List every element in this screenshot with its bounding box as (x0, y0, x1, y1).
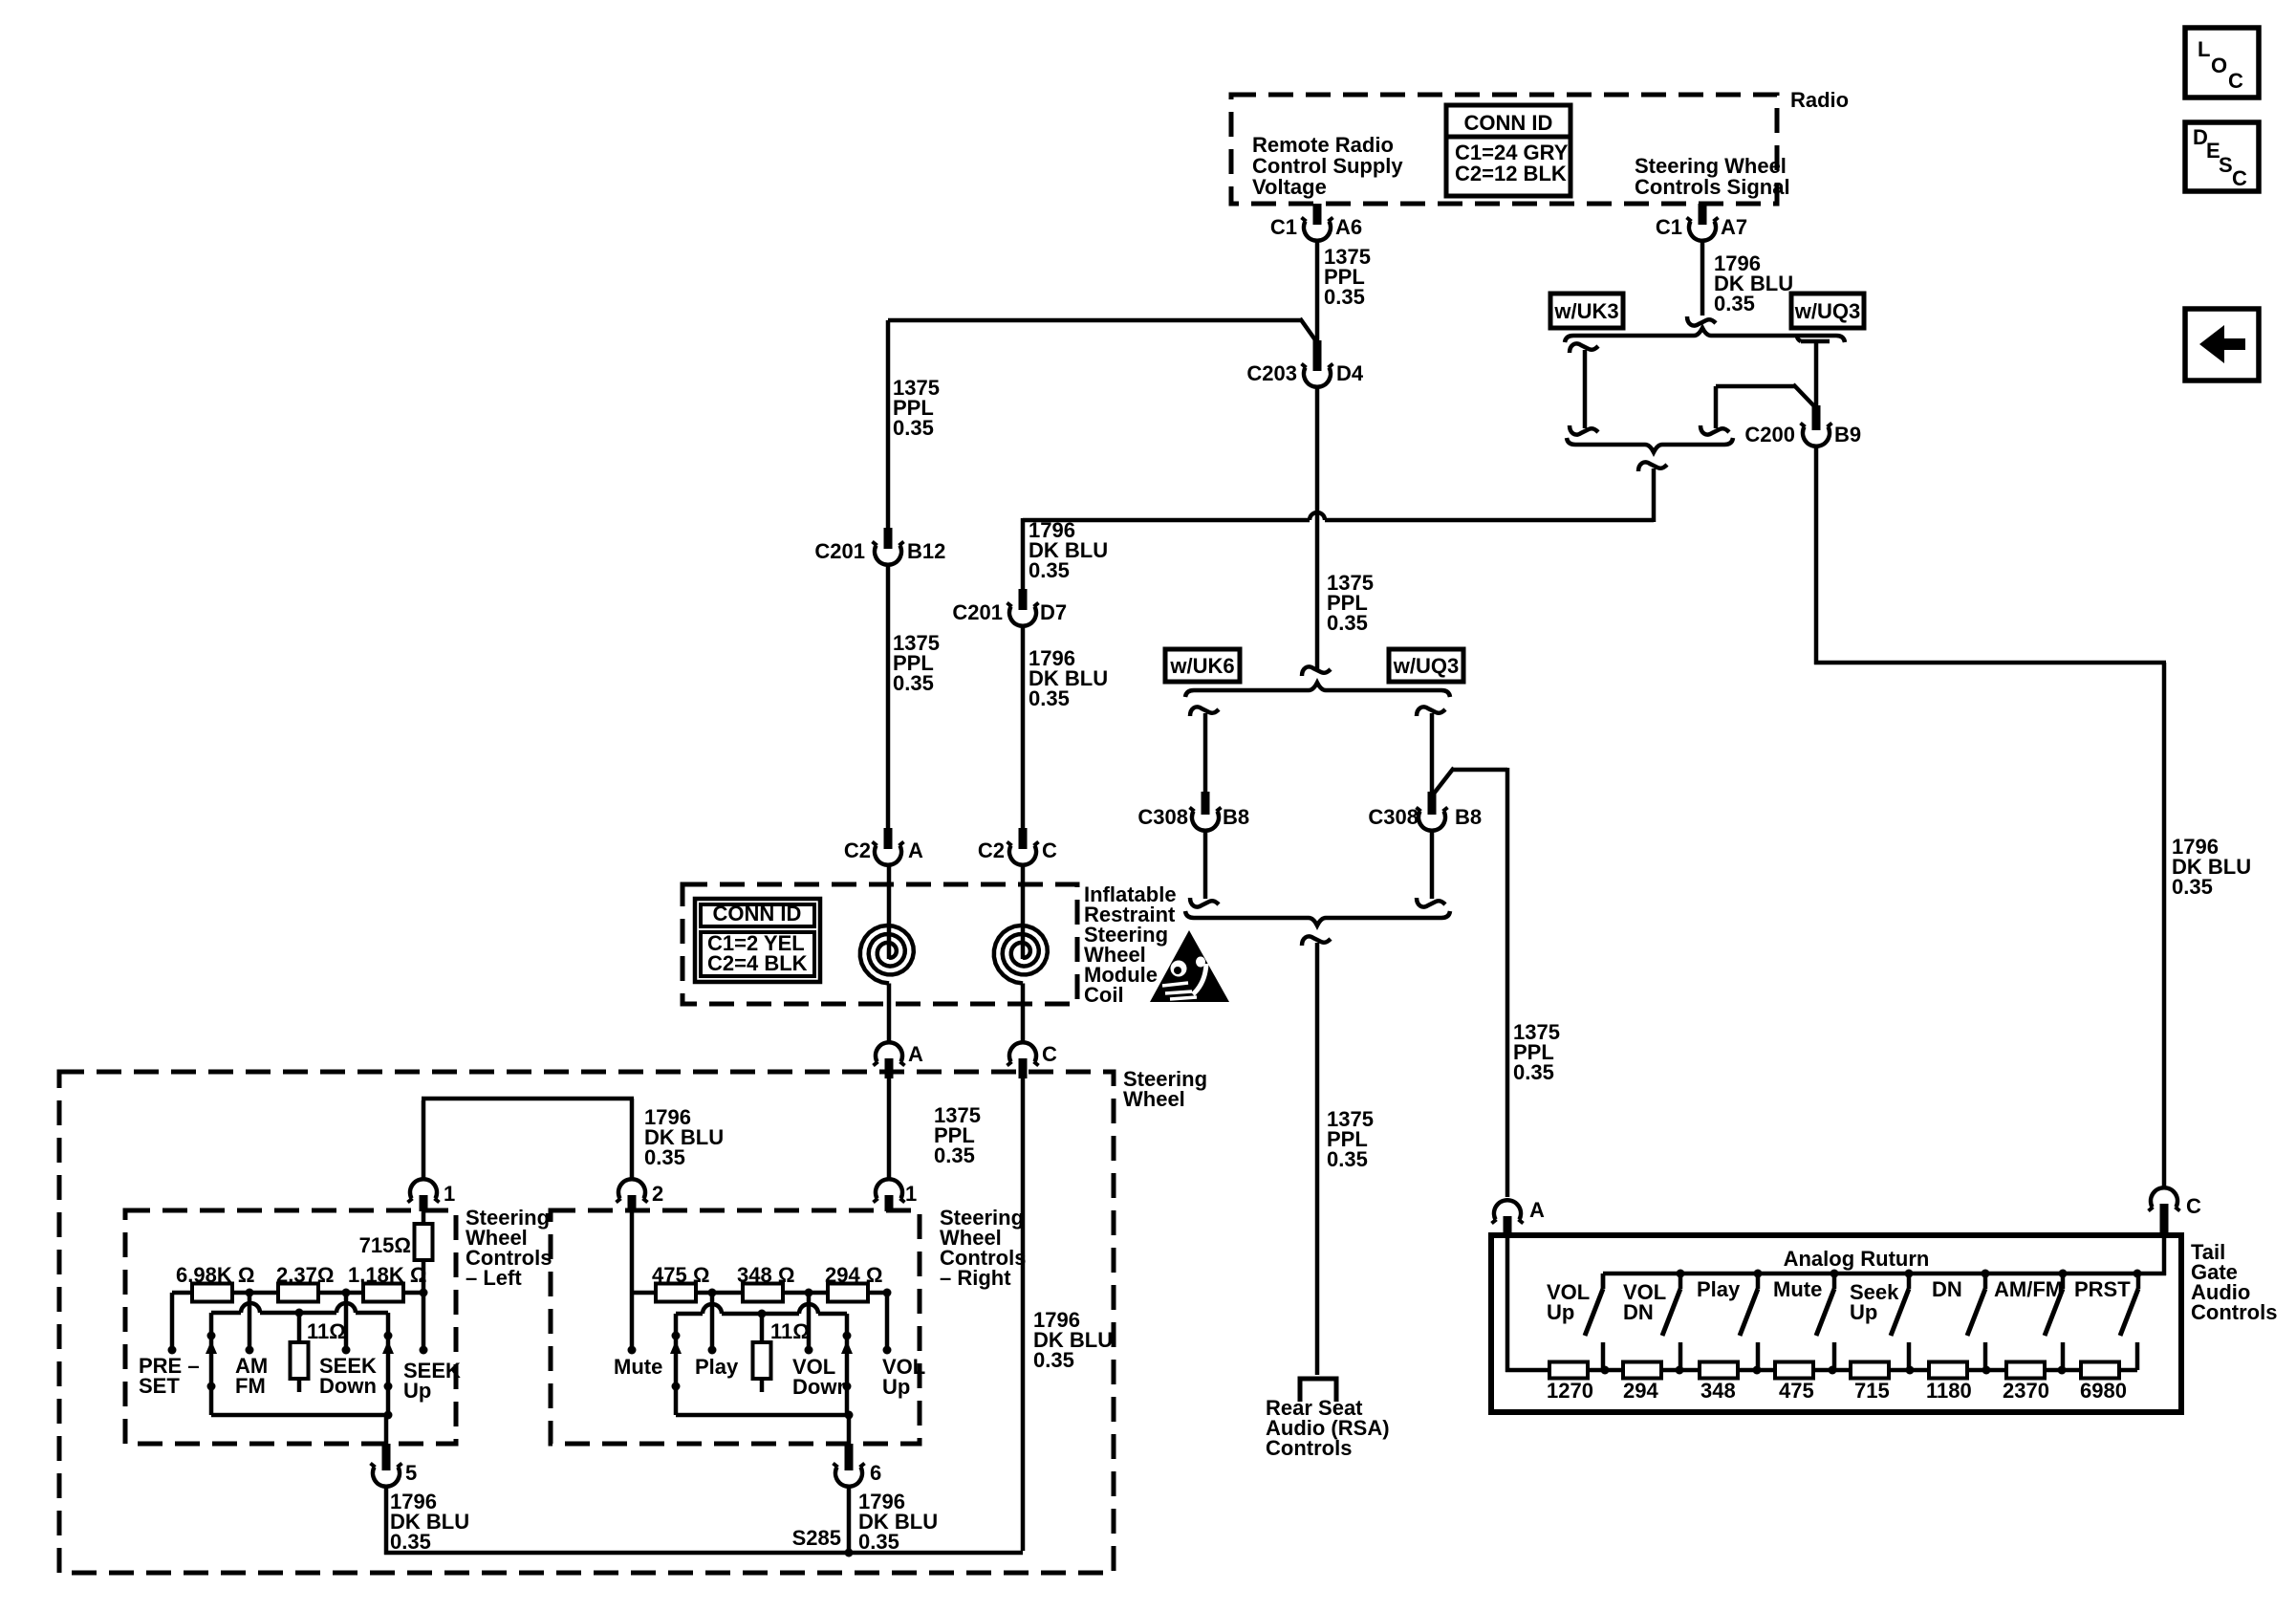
svg-text:0.35: 0.35 (1714, 292, 1755, 316)
svg-text:Up: Up (403, 1379, 431, 1403)
svg-text:SET: SET (139, 1374, 180, 1398)
svg-text:Controls: Controls (1266, 1436, 1352, 1460)
svg-text:C308: C308 (1137, 805, 1188, 829)
svg-text:Down: Down (319, 1374, 377, 1398)
svg-text:0.35: 0.35 (1327, 611, 1368, 635)
svg-text:CONN ID: CONN ID (1464, 111, 1553, 135)
svg-text:w/UK6: w/UK6 (1169, 654, 1234, 678)
svg-text:C2: C2 (844, 838, 871, 862)
svg-text:Up: Up (1547, 1300, 1574, 1324)
svg-text:C203: C203 (1246, 361, 1297, 385)
svg-text:0.35: 0.35 (1033, 1348, 1074, 1372)
svg-text:C308: C308 (1368, 805, 1419, 829)
svg-text:475: 475 (1779, 1379, 1814, 1403)
svg-text:C2=4 BLK: C2=4 BLK (707, 951, 808, 975)
svg-text:0.35: 0.35 (893, 416, 934, 440)
svg-text:C: C (1042, 838, 1057, 862)
svg-text:w/UK3: w/UK3 (1553, 299, 1618, 323)
svg-text:Play: Play (695, 1355, 739, 1379)
svg-text:AM/FM: AM/FM (1994, 1277, 2063, 1301)
svg-text:Coil: Coil (1084, 983, 1124, 1007)
svg-text:Voltage: Voltage (1252, 175, 1327, 199)
svg-text:C: C (2232, 166, 2247, 190)
svg-text:C201: C201 (814, 539, 865, 563)
svg-text:– Left: – Left (466, 1266, 522, 1290)
svg-text:C201: C201 (952, 600, 1003, 624)
svg-text:0.35: 0.35 (934, 1143, 975, 1167)
svg-text:Analog Ruturn: Analog Ruturn (1784, 1247, 1930, 1271)
svg-text:B8: B8 (1223, 805, 1249, 829)
svg-text:Radio: Radio (1790, 88, 1849, 112)
svg-text:B9: B9 (1834, 423, 1861, 446)
svg-text:S: S (2219, 153, 2233, 177)
svg-text:DN: DN (1623, 1300, 1654, 1324)
svg-text:B8: B8 (1455, 805, 1482, 829)
svg-text:D4: D4 (1336, 361, 1364, 385)
svg-text:PRST: PRST (2074, 1277, 2131, 1301)
svg-text:348: 348 (1700, 1379, 1736, 1403)
svg-text:1: 1 (444, 1182, 455, 1206)
svg-text:DN: DN (1932, 1277, 1962, 1301)
svg-text:Up: Up (882, 1375, 910, 1399)
svg-text:w/UQ3: w/UQ3 (1393, 654, 1459, 678)
svg-text:11Ω: 11Ω (307, 1319, 346, 1343)
svg-text:6.98K Ω: 6.98K Ω (176, 1263, 254, 1287)
svg-text:5: 5 (405, 1461, 417, 1485)
svg-text:Up: Up (1850, 1300, 1877, 1324)
svg-text:6980: 6980 (2080, 1379, 2127, 1403)
svg-text:294 Ω: 294 Ω (825, 1263, 882, 1287)
svg-text:C: C (2186, 1194, 2201, 1218)
svg-text:0.35: 0.35 (644, 1145, 685, 1169)
svg-text:Play: Play (1697, 1277, 1741, 1301)
svg-text:S285: S285 (792, 1526, 841, 1550)
svg-text:Down: Down (792, 1375, 850, 1399)
svg-text:348 Ω: 348 Ω (737, 1263, 794, 1287)
svg-text:C2: C2 (978, 838, 1005, 862)
svg-text:Controls: Controls (2191, 1300, 2277, 1324)
svg-text:C: C (2228, 69, 2243, 93)
svg-text:Controls Signal: Controls Signal (1635, 175, 1790, 199)
svg-text:294: 294 (1623, 1379, 1658, 1403)
svg-text:Wheel: Wheel (1123, 1087, 1185, 1111)
svg-text:1: 1 (905, 1182, 917, 1206)
svg-text:CONN ID: CONN ID (713, 902, 802, 925)
svg-text:715Ω: 715Ω (359, 1233, 411, 1257)
svg-text:1180: 1180 (1926, 1379, 1972, 1403)
svg-text:475 Ω: 475 Ω (652, 1263, 709, 1287)
svg-text:0.35: 0.35 (1327, 1147, 1368, 1171)
svg-text:C: C (1042, 1042, 1057, 1066)
svg-text:A: A (908, 838, 923, 862)
svg-text:Mute: Mute (1773, 1277, 1822, 1301)
svg-text:1.18K Ω: 1.18K Ω (348, 1263, 426, 1287)
svg-text:C1: C1 (1270, 215, 1297, 239)
svg-text:C2=12 BLK: C2=12 BLK (1455, 162, 1567, 185)
svg-text:11Ω: 11Ω (770, 1319, 810, 1343)
svg-text:C1: C1 (1656, 215, 1682, 239)
svg-text:B12: B12 (907, 539, 945, 563)
svg-text:D7: D7 (1040, 600, 1067, 624)
svg-text:2.37Ω: 2.37Ω (276, 1263, 334, 1287)
svg-text:1270: 1270 (1547, 1379, 1593, 1403)
svg-text:L: L (2198, 37, 2210, 61)
svg-text:0.35: 0.35 (893, 671, 934, 695)
svg-text:– Right: – Right (940, 1266, 1011, 1290)
svg-text:2370: 2370 (2003, 1379, 2049, 1403)
svg-text:A: A (908, 1042, 923, 1066)
svg-text:FM: FM (235, 1374, 266, 1398)
svg-text:0.35: 0.35 (1029, 558, 1070, 582)
svg-text:0.35: 0.35 (1324, 285, 1365, 309)
svg-text:0.35: 0.35 (1513, 1060, 1554, 1084)
svg-text:0.35: 0.35 (2172, 875, 2213, 899)
svg-text:C200: C200 (1744, 423, 1795, 446)
svg-text:715: 715 (1854, 1379, 1890, 1403)
svg-text:A7: A7 (1721, 215, 1747, 239)
svg-text:0.35: 0.35 (858, 1530, 899, 1554)
svg-text:2: 2 (652, 1182, 663, 1206)
svg-text:0.35: 0.35 (1029, 686, 1070, 710)
svg-text:O: O (2211, 54, 2227, 77)
svg-text:w/UQ3: w/UQ3 (1794, 299, 1860, 323)
svg-text:0.35: 0.35 (390, 1530, 431, 1554)
svg-text:A: A (1529, 1198, 1545, 1222)
svg-text:Mute: Mute (614, 1355, 662, 1379)
svg-text:6: 6 (870, 1461, 881, 1485)
svg-text:A6: A6 (1335, 215, 1362, 239)
